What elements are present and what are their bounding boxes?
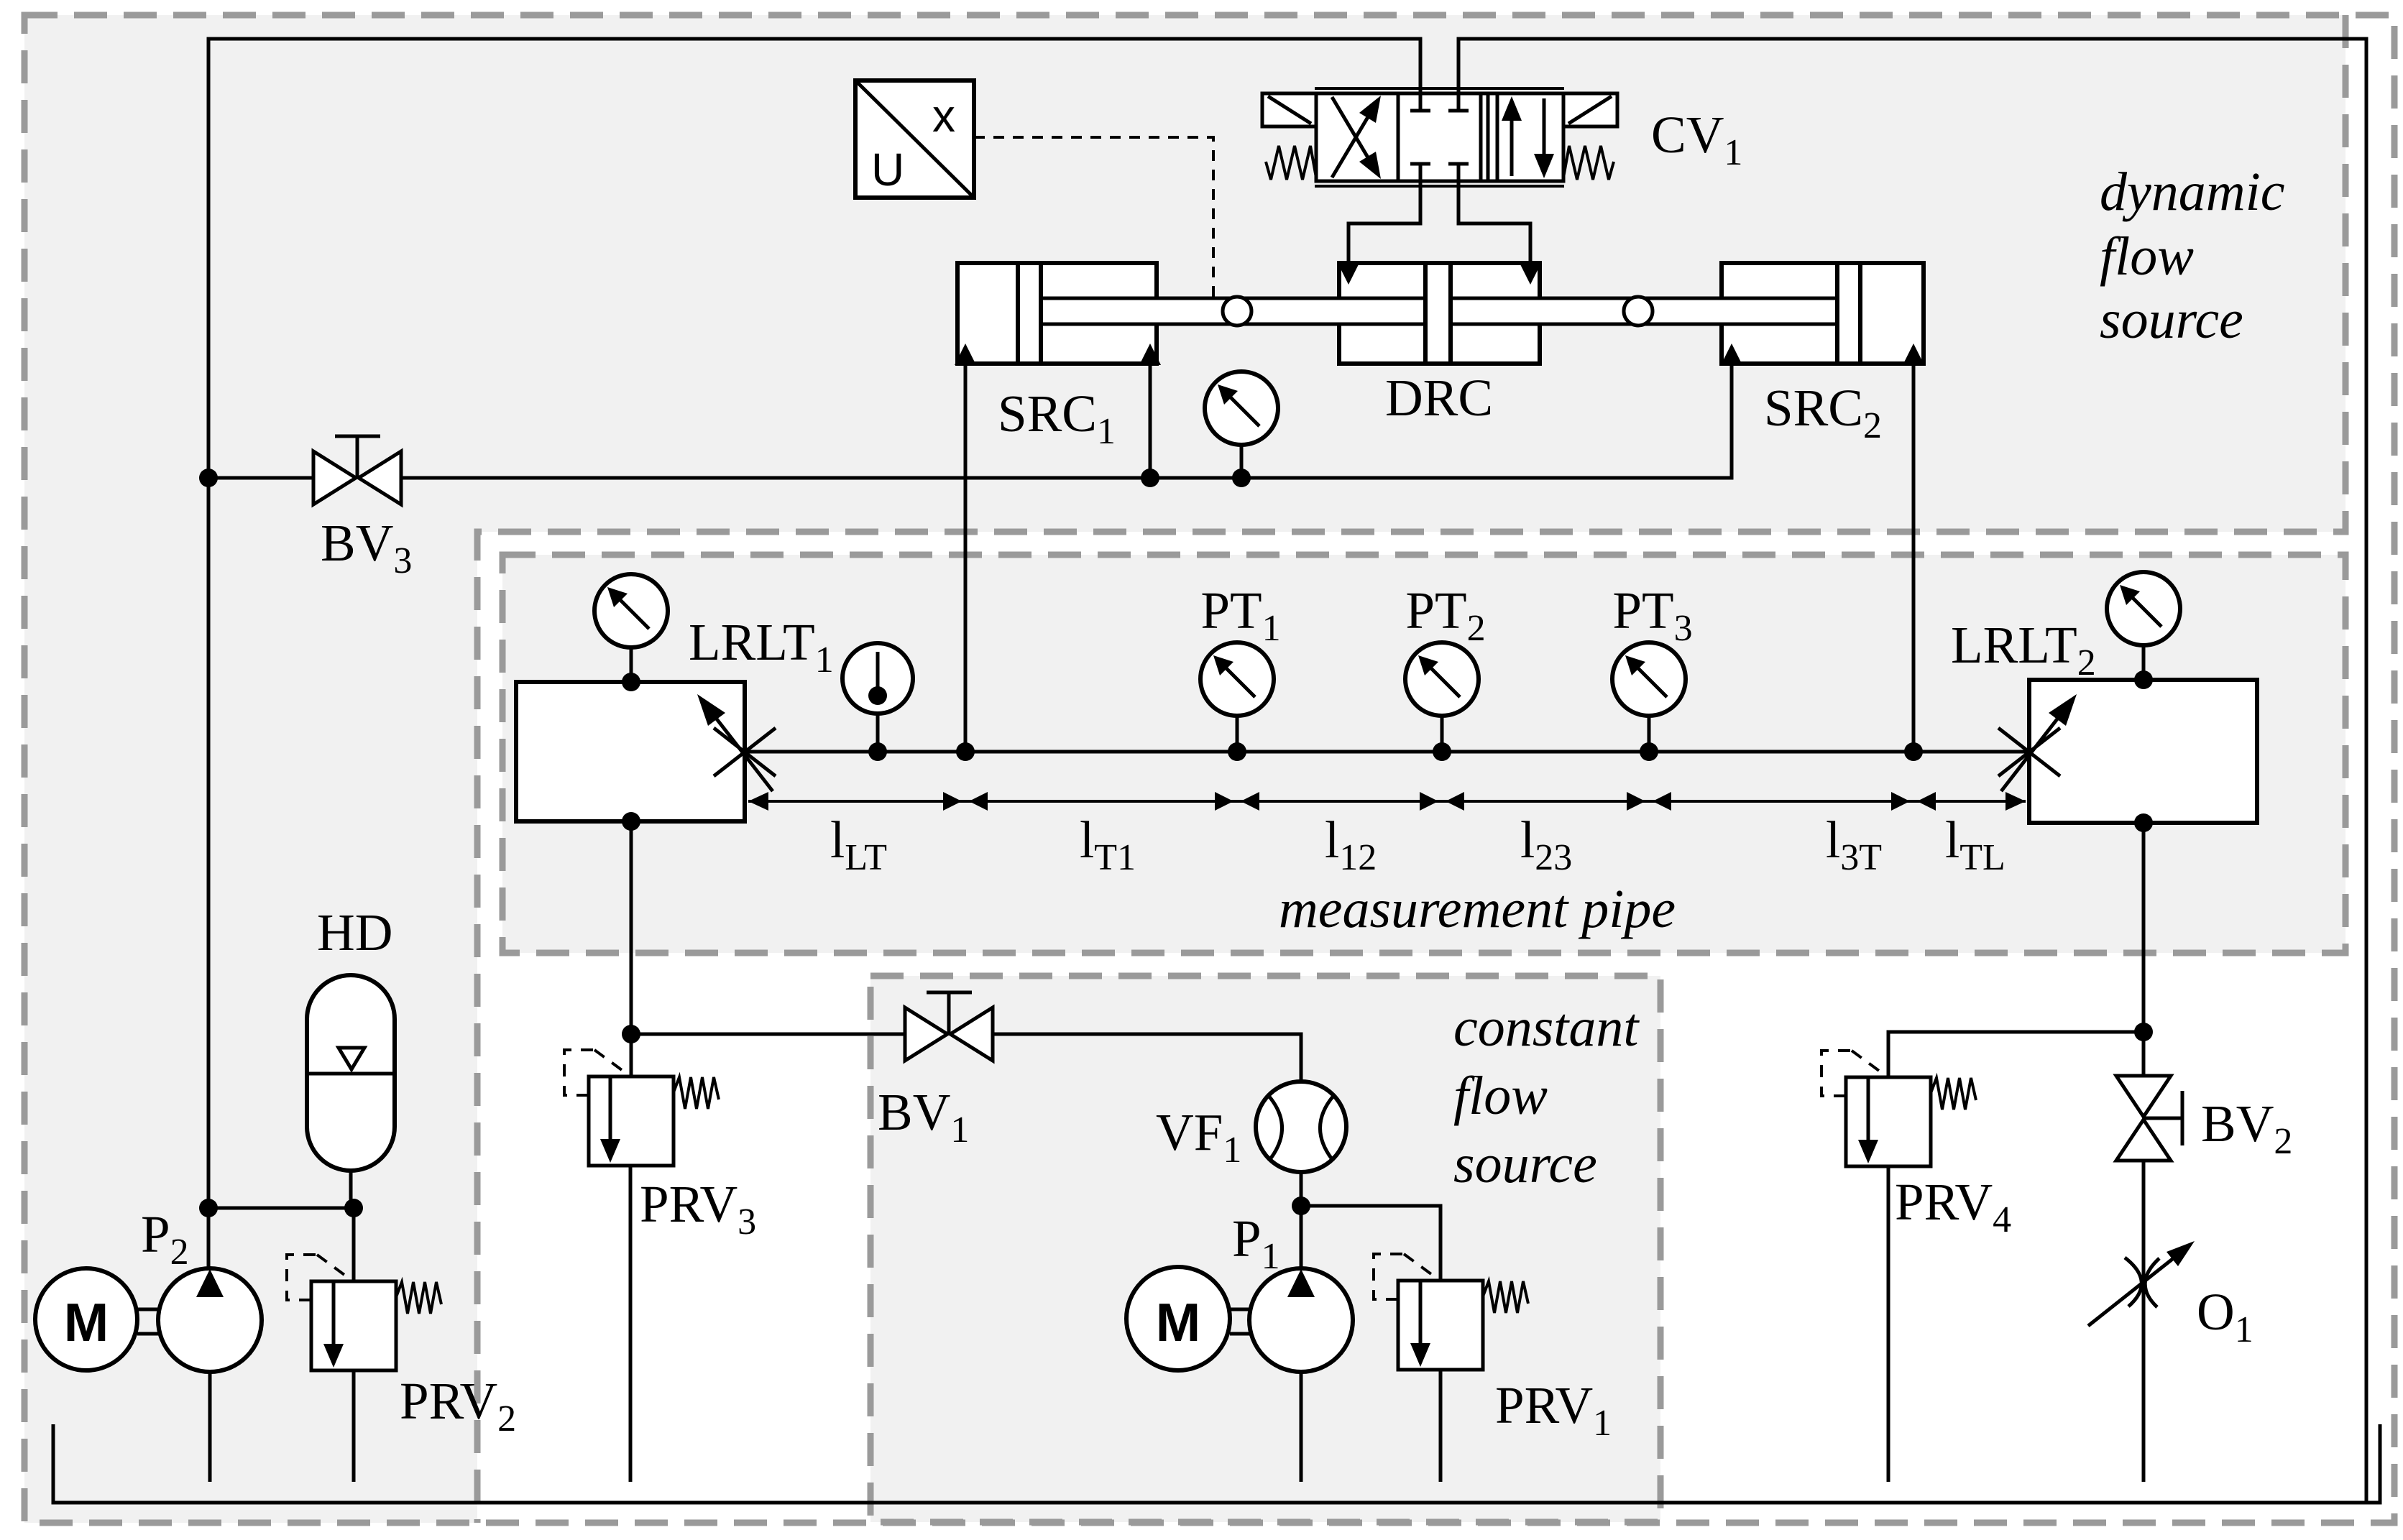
svg-text:DRC: DRC bbox=[1385, 369, 1493, 427]
wire: PRV3 outlet to tank bbox=[629, 1166, 633, 1482]
svg-text:constant: constant bbox=[1453, 997, 1640, 1058]
CV1 right box parallel arrows bbox=[1487, 93, 1490, 181]
variable restrictor on LRLT1 bbox=[697, 694, 776, 791]
dimension line bbox=[748, 792, 2026, 811]
junction dot HD bottom bbox=[344, 1199, 363, 1217]
wire: LRLT2 bottom down bbox=[2142, 823, 2146, 1076]
constant flow source region box bbox=[870, 976, 1660, 1522]
wire: CV1 A-port down to DRC left bbox=[1348, 181, 1420, 266]
SRC2 left port arrow bbox=[1721, 343, 1742, 365]
CV1 middle box blocked ports (T symbols) bbox=[1419, 93, 1423, 111]
rod joint left bbox=[1223, 297, 1251, 326]
junction dot LRLT2 bottom bbox=[2134, 813, 2153, 832]
pressure relief valve PRV3 bbox=[564, 1050, 719, 1166]
variable orifice O1 bbox=[2088, 1241, 2195, 1326]
pump P2 bbox=[158, 1268, 262, 1372]
pressure relief valve PRV2 bbox=[287, 1255, 441, 1370]
wire: P2 suction to tank bbox=[208, 1372, 212, 1482]
SRC1 right port arrow bbox=[1139, 343, 1161, 365]
wire: P1 suction to tank bbox=[1300, 1372, 1303, 1482]
SRC2 right port arrow bbox=[1903, 343, 1924, 365]
wire: right return line from CV1 T-port to tank bbox=[1458, 39, 2366, 1503]
piston rod (common) bbox=[1041, 298, 1839, 325]
motor M of P1 bbox=[1126, 1267, 1250, 1370]
CV1 right solenoid bbox=[1563, 93, 1617, 126]
label: constant flow source bbox=[1453, 997, 1640, 1194]
svg-text:source: source bbox=[1453, 1134, 1597, 1194]
junction dot SRC1 right port bbox=[1141, 469, 1159, 487]
pressure transducer PT2 bbox=[1405, 642, 1479, 752]
tank / reservoir line bbox=[53, 1424, 2380, 1503]
DRC piston bbox=[1425, 263, 1451, 364]
cylinder SRC1 body bbox=[957, 263, 1157, 364]
wire: SRC1 right port to BV3 line bbox=[1149, 364, 1152, 478]
ball valve BV3 bbox=[313, 436, 401, 504]
wire: PRV4 outlet to tank bbox=[1887, 1166, 1890, 1482]
junction dot at BV3 bbox=[199, 469, 218, 487]
wire: BV2 to O1 to tank bbox=[2142, 1161, 2146, 1482]
svg-text:M: M bbox=[1156, 1292, 1200, 1352]
CV1 right spring bbox=[1563, 146, 1614, 180]
cylinder DRC body bbox=[1339, 263, 1540, 364]
accumulator HD bbox=[307, 975, 395, 1208]
junction dot LRLT1 bottom bbox=[622, 812, 640, 831]
svg-text:flow: flow bbox=[2100, 226, 2194, 287]
rod joint right bbox=[1624, 297, 1653, 326]
transducer U/x box bbox=[855, 80, 974, 198]
junction dot LRLT1 top bbox=[622, 673, 640, 691]
motor M of P2 bbox=[35, 1268, 158, 1370]
wire: BV1 line bbox=[631, 1034, 1301, 1082]
control line (dashed) from transducer to rod bbox=[974, 137, 1213, 297]
wire: left supply line from CV1 P-port to BV3/P2 column bbox=[208, 39, 1420, 1269]
junction dot temp gauge bbox=[868, 742, 887, 761]
CV1 left box crossed arrows bbox=[1332, 101, 1377, 177]
wire: HD junction to PRV2 bbox=[352, 1208, 356, 1281]
svg-text:x: x bbox=[932, 90, 955, 142]
pressure relief valve PRV1 bbox=[1374, 1254, 1528, 1370]
pressure transducer PT1 bbox=[1200, 642, 1274, 752]
measurement pipe line bbox=[745, 750, 2029, 754]
DRC right port arrow bbox=[1520, 263, 1541, 285]
temperature gauge bbox=[842, 643, 913, 752]
svg-text:LRLT1: LRLT1 bbox=[689, 613, 834, 681]
ball valve BV2 (vertical) bbox=[2116, 1076, 2182, 1161]
wire: P2 column to HD/PRV2 bbox=[208, 1207, 354, 1210]
wire: BV3 line across to SRC2 left port bbox=[208, 364, 1732, 478]
pressure relief valve PRV4 bbox=[1821, 1051, 1976, 1166]
junction dot gauge stem bbox=[1232, 469, 1251, 487]
svg-text:source: source bbox=[2100, 290, 2243, 350]
wire: SRC1 left port to measurement pipe bbox=[964, 364, 968, 752]
svg-text:LRLT2: LRLT2 bbox=[1951, 616, 2096, 683]
svg-text:flow: flow bbox=[1453, 1066, 1548, 1126]
junction dot LRLT2 top bbox=[2134, 670, 2153, 689]
svg-text:U: U bbox=[871, 144, 904, 195]
svg-text:dynamic: dynamic bbox=[2100, 162, 2284, 222]
wire: LRLT1 bottom to PRV3 junction bbox=[630, 821, 633, 1076]
junction dot P2 column bbox=[199, 1199, 218, 1217]
tank LRLT1 bbox=[516, 682, 745, 821]
wire: SRC2 right port to measurement pipe bbox=[1912, 364, 1916, 752]
junction dot BV2/PRV4 bbox=[2134, 1023, 2153, 1041]
valve CV1 (4/3 proportional directional valve) bbox=[1262, 88, 1617, 186]
wire: PRV1 outlet to tank bbox=[1439, 1370, 1443, 1482]
wire: PRV2 outlet to tank bbox=[352, 1370, 356, 1482]
tank LRLT2 bbox=[2029, 680, 2257, 823]
SRC1 piston bbox=[1018, 263, 1041, 364]
junction dot SRC2 line on pipe bbox=[1904, 742, 1923, 761]
svg-text:measurement pipe: measurement pipe bbox=[1279, 879, 1676, 939]
wire: VF1 to P1 bbox=[1300, 1172, 1303, 1269]
label: dynamic flow source bbox=[2100, 162, 2284, 350]
CV1 left spring bbox=[1266, 146, 1316, 180]
svg-text:M: M bbox=[64, 1292, 109, 1352]
svg-text:HD: HD bbox=[317, 903, 392, 962]
cylinder SRC2 body bbox=[1722, 263, 1924, 364]
gauge above LRLT2 bbox=[2107, 572, 2180, 680]
wire: branch to PRV1 bbox=[1301, 1206, 1441, 1281]
flow meter VF1 bbox=[1256, 1082, 1346, 1172]
pump P1 bbox=[1249, 1268, 1353, 1372]
ball valve BV1 bbox=[905, 992, 993, 1061]
gauge above LRLT1 bbox=[594, 574, 668, 682]
junction dot SRC1 line on pipe bbox=[956, 742, 975, 761]
wire: CV1 B-port down to DRC right bbox=[1458, 181, 1530, 266]
SRC1 left port arrow bbox=[955, 343, 976, 365]
SRC2 piston bbox=[1837, 263, 1860, 364]
DRC left port arrow bbox=[1338, 263, 1359, 285]
measurement pipe region box bbox=[502, 555, 2345, 953]
pressure transducer PT3 bbox=[1612, 642, 1686, 752]
pressure gauge below SRC1 bbox=[1205, 372, 1278, 478]
junction dot P1 outlet bbox=[1292, 1197, 1310, 1215]
wire: branch to PRV4 bbox=[1888, 1032, 2144, 1077]
variable restrictor on LRLT2 bbox=[1998, 694, 2077, 791]
CV1 left solenoid bbox=[1262, 93, 1316, 126]
junction dot PRV3/BV1 bbox=[622, 1025, 640, 1043]
